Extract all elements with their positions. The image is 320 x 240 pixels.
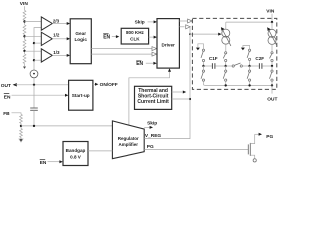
svg-text:VIN: VIN [20,1,29,7]
start-up block U1 [69,80,93,110]
wire V_REG rail vertical [189,27,191,139]
resistor R1 [23,10,26,20]
node bottom rail c3 [248,84,250,86]
wire EN to bandgap [48,161,60,163]
arrowhead ON/OFF [95,83,98,86]
svg-text:VIN: VIN [266,8,275,14]
svg-text:2/3: 2/3 [53,18,60,23]
capacitor C1F [212,63,215,69]
label bandgap 0.8 V [66,148,86,160]
node bus junction comparator C [33,59,35,61]
wire bus to comparator C lower input [34,59,41,61]
switch S6 column1 lower [201,66,205,85]
svg-text:EN: EN [4,94,11,100]
wire FB lead [12,113,22,115]
switch S8 column3 lower [247,66,251,85]
resistor R5 feedback upper [20,114,23,124]
node tap3 junction [23,50,25,52]
wire top rail inside box [226,21,272,23]
wire comparator A output [52,23,67,25]
node bottom rail c4 [271,84,273,86]
wire R4 to ground [24,64,26,67]
svg-text:Current Limit: Current Limit [137,99,169,105]
wire c2 to flying switch [226,65,232,67]
wire R1 to tap1 [24,20,26,25]
node middle row junction c3 [248,65,250,67]
arrowhead EN into driver [153,62,156,65]
svg-text:Regulator: Regulator [118,136,139,141]
bandgap block U6 [63,142,88,166]
wire FB node to regulator amplifier [21,125,112,127]
node EN label for bandgap [40,160,47,167]
resistor R3 [23,39,26,49]
transistor Q3 power good open drain [248,133,262,162]
arrowhead EN into start-up [65,94,68,97]
wire gear logic output 2 to driver [91,53,152,55]
svg-text:Start-up: Start-up [72,93,90,98]
node EN label left [4,94,11,101]
wire OUT line [16,84,69,86]
svg-text:PG: PG [266,134,273,140]
wire R3 to tap3 [24,49,26,54]
node bottom rail c2 [225,84,227,86]
capacitor C2F [259,63,262,69]
svg-text:Driver: Driver [162,43,175,48]
node EN label for clock [103,34,110,41]
wire R2 to tap2 [24,35,26,40]
wire gear logic output 1 to driver [91,48,152,50]
svg-text:Skip: Skip [135,20,145,26]
svg-text:800 KHz: 800 KHz [126,30,145,35]
arrowhead into gear logic A [67,22,70,25]
wire c1 to C1F [204,65,212,67]
label gear logic [74,31,87,42]
arrowhead into gear logic C [67,54,70,57]
wire tap3 to comparator C upper input [25,50,42,52]
open arrowhead gear output 2 [152,52,157,56]
node tap2 junction [23,35,25,37]
wire rail to pass transistor gate [190,33,218,35]
node middle row junction c1 [202,65,204,67]
arrowhead EN into clock [116,35,119,38]
wire comparator B output [52,38,67,40]
wire OUT stub bottom right [271,85,273,93]
wire driver output 2 [179,26,184,28]
svg-text:EN: EN [40,160,47,166]
wire thermal output arrow [172,91,183,93]
node top rail junction [271,21,273,23]
wire thermal to rail [172,98,190,100]
svg-text:Bandgap: Bandgap [66,148,86,153]
node EN label for driver [136,61,143,67]
label regulator amplifier [118,136,139,147]
wire EN to start-up [12,94,66,96]
wire comparator C output [52,54,67,56]
arrowhead clock into driver [154,36,157,39]
svg-text:1/3: 1/3 [53,50,60,55]
node FB junction [20,125,22,127]
capacitor C3 feedforward [30,85,38,126]
comparator B 1/2 [41,32,52,45]
switch S5 flying horizontal [232,63,242,67]
arrowhead skip into driver [154,20,157,23]
svg-text:OUT: OUT [267,96,277,102]
node rail thermal junction [189,98,191,100]
switch S9 column4 lower [270,66,274,85]
transistor Q2 pass element right [267,22,277,51]
comparator C 1/3 [41,49,52,62]
arrowhead thermal output [183,91,186,94]
wire flying switch to c3 [242,65,249,67]
wire bus to comparator B lower input [34,42,41,44]
wire start-up ON/OFF stub [93,83,95,85]
thermal block U4 [135,86,172,109]
svg-text:CLK: CLK [130,37,140,42]
node rail gate branch [189,33,191,35]
svg-text:OUT: OUT [1,83,11,89]
wire C2F to c4 [262,65,272,67]
switch S2 column2 upper [223,52,227,66]
reference source inner mark [33,73,35,75]
arrowhead skip stub [150,126,153,129]
wire VIN stub into box [271,14,273,22]
arrowhead gate wire [218,33,221,36]
transistor Q1 pass element left [221,22,231,51]
wire EN to clock [112,36,116,38]
wire c3 to C2F [250,65,259,67]
wire skip net from amplifier to driver [129,71,170,126]
wire tap1 to comparator A upper input [25,21,42,23]
ground ladder [23,67,26,69]
open arrowhead gear output 1 [152,47,157,51]
gear logic block U2 [70,19,91,64]
clock block 800 KHz [121,28,148,44]
arrowhead OUT pointing left [13,83,17,86]
wire clock to driver [149,36,154,38]
charge pump dashed enclosure [192,18,276,89]
wire reference bus vertical [34,28,41,71]
svg-text:EN: EN [136,61,143,67]
wire reference to OUT line [33,78,35,85]
wire skip to driver [148,21,154,23]
resistor R4 [23,54,26,64]
resistor R2 [23,25,26,35]
comparator A 2/3 [41,17,52,30]
switch S4 column4 upper [270,52,274,66]
svg-text:C2F: C2F [255,56,264,61]
wire skip stub at amplifier [144,126,150,128]
svg-text:Amplifier: Amplifier [119,142,139,147]
label 800 KHz CLK [126,30,145,42]
wire tap2 to comparator B upper input [25,35,42,37]
switch S7 column2 lower [223,66,227,85]
driver block U3 [157,19,179,69]
svg-text:ON/OFF: ON/OFF [100,82,118,88]
reference source V1 circle [30,70,38,78]
open arrowhead driver output 2 [186,25,191,29]
svg-text:C1F: C1F [209,56,218,61]
node cap junction on FB wire [33,125,35,127]
node tap1 junction [23,20,25,22]
wire driver output 1 [179,20,188,22]
wire R5 to FB node [20,124,22,129]
svg-text:Logic: Logic [74,37,87,42]
svg-text:0.8 V: 0.8 V [70,155,82,160]
node middle row junction c2 [225,65,227,67]
wire bottom rail [205,84,272,86]
switch S3 column3 upper with ground [241,46,251,67]
wire EN to driver [146,62,154,64]
arrowhead EN into bandgap [59,160,62,163]
svg-text:Gear: Gear [75,31,86,36]
wire V_REG from amplifier to rail [144,138,190,140]
switch S1 column1 upper with ground [196,44,205,66]
wire VIN stem [24,6,26,10]
svg-text:FB: FB [3,111,10,117]
svg-text:1/2: 1/2 [53,33,60,38]
svg-text:EN: EN [103,34,110,40]
label thermal and short-circuit current limit [137,88,169,105]
arrowhead skip into driver bottom [168,68,171,71]
svg-text:Skip: Skip [147,120,157,126]
node bus junction comparator B [33,42,35,44]
open arrowhead driver output 1 [188,19,193,23]
node middle row junction c4 [271,65,273,67]
resistor R6 feedback lower [20,128,23,138]
ground FB divider [19,138,23,142]
wire PG from amplifier to transistor gate [144,148,248,150]
wire bandgap to regulator amplifier [88,150,112,152]
wire C1F to c2 [215,65,225,67]
node OUT reference junction [33,84,35,86]
arrowhead into gear logic B [67,37,70,40]
regulator amplifier U5 [112,121,144,159]
